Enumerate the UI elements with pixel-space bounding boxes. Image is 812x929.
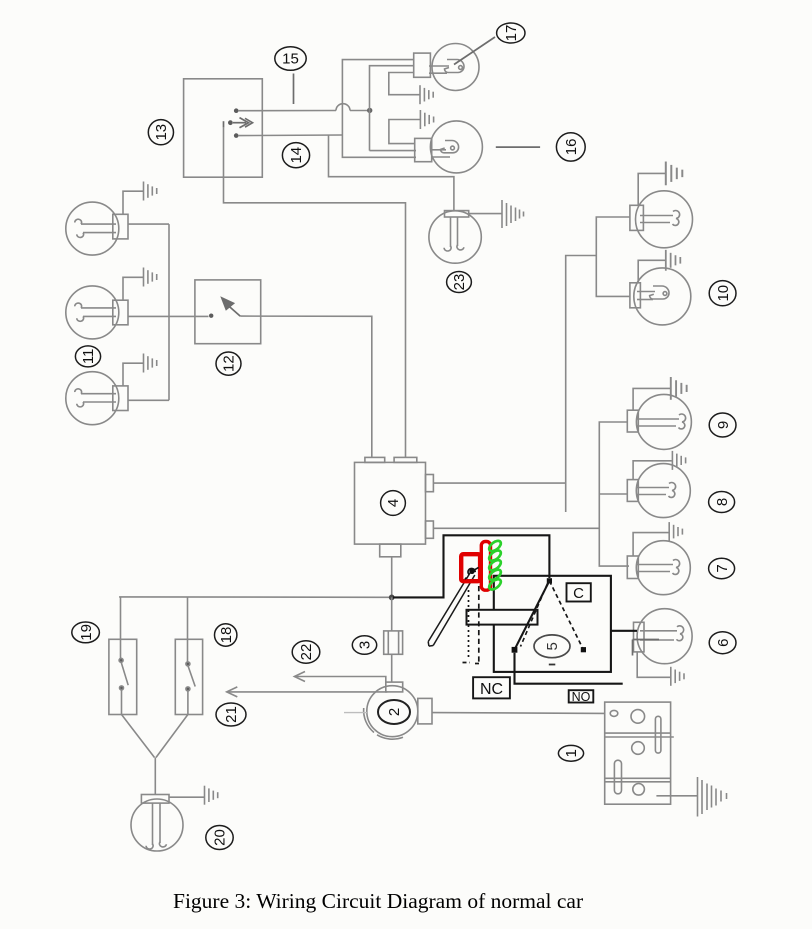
wire relay NO side to lamp 6 black (611, 630, 637, 632)
label circle 3 (352, 636, 376, 655)
label circle 7 (709, 558, 735, 578)
ground for lamp 11 middle (144, 268, 157, 287)
fuse component 3 (384, 631, 403, 654)
svg-text:4: 4 (385, 499, 402, 507)
wire stub left of horn 2 (344, 712, 367, 714)
label circle 22 (292, 641, 320, 663)
wire lamp16 to ground path (389, 120, 420, 144)
box 13 terminal dot pin c (234, 133, 239, 138)
armature lever rod (428, 573, 475, 647)
ground for box 1 large (698, 777, 727, 817)
label circle 16 (556, 133, 585, 161)
switch 12 contact dot (209, 314, 213, 318)
wire lamp10 pair feeder (596, 217, 630, 296)
label circle 5 (534, 635, 570, 658)
box 13 arrow (233, 118, 253, 128)
svg-text:5: 5 (544, 642, 561, 650)
relay armature bar red (481, 542, 490, 591)
armature pivot dot black (469, 569, 474, 574)
lamp 6 bulb (634, 609, 693, 664)
wire box4 right lower terminal to lamps 7 8 9 bus (433, 422, 629, 566)
lamp 10 upper bulb (630, 191, 693, 248)
lamp 20 bulb (131, 795, 183, 852)
label circle 6 (709, 632, 736, 654)
ground for lamp 8 (672, 451, 685, 470)
svg-text:1: 1 (563, 749, 580, 757)
svg-text:2: 2 (386, 708, 403, 716)
switch box 12 (195, 280, 261, 344)
lamp 23 bulb (429, 211, 481, 264)
wire left bus to lamp17 and lamp16 bottom prong (342, 60, 416, 158)
wire lamp11 bottom feed to bus (128, 399, 169, 401)
switch box 19 (109, 639, 137, 714)
wire lamp17 to ground path (389, 73, 420, 95)
relay coil core red (461, 554, 480, 581)
label circle 2 (378, 700, 410, 724)
wire junction B to fuse 3 (391, 597, 393, 631)
label circle 18 (215, 624, 237, 646)
switch 19 contacts and lever (119, 658, 128, 690)
label 17 pointer line (454, 37, 495, 65)
svg-text:15: 15 (282, 51, 299, 68)
node B junction dot (389, 595, 395, 601)
ground for lamp 11 bottom (144, 354, 157, 373)
svg-text:23: 23 (451, 274, 468, 291)
label circle 23 (447, 272, 472, 293)
ground for lamp 10 lower (666, 250, 681, 271)
wire lamp20 to ground (169, 796, 204, 798)
label box NC (473, 677, 510, 698)
horn 2 body (364, 682, 432, 739)
wire box4 right upper terminal to right bus up (433, 256, 596, 513)
lamp 11 top bulb (66, 202, 128, 255)
ground for lamp 16 (420, 110, 433, 129)
wire lamp7 to ground (633, 533, 669, 556)
arrow 22 line (294, 672, 385, 683)
contact NC square dot (512, 647, 518, 653)
label circle 13 (148, 120, 173, 145)
label circle 9 (709, 413, 736, 437)
wire lamp9 to ground (633, 388, 670, 410)
svg-text:18: 18 (218, 627, 235, 644)
box 13 terminal dot pin b (228, 120, 233, 125)
label circle 19 (72, 622, 100, 643)
ground for lamp 23 (502, 200, 524, 228)
slider bar rectangle (467, 610, 538, 625)
relay enclosure box 5 (494, 576, 611, 672)
label circle 10 (709, 281, 736, 306)
relay arm dashed to NO (549, 581, 583, 650)
contact C square dot (547, 578, 552, 583)
wire drop to switch 19 (120, 597, 122, 660)
caption (173, 889, 583, 914)
svg-text:NC: NC (480, 681, 503, 698)
wire Y merge from switches to lamp 20 (122, 690, 188, 795)
wire fuse 3 to horn 2 (391, 654, 393, 682)
lamp 16 headlight bulb (415, 121, 483, 173)
control box 4 (355, 457, 434, 556)
svg-text:14: 14 (288, 147, 305, 164)
svg-text:17: 17 (503, 25, 520, 42)
svg-text:6: 6 (715, 639, 732, 647)
wire box4 bottom terminal to junction B (391, 557, 393, 598)
dashed armature guide lines (463, 586, 483, 664)
wire junction B to relay C terminal black (393, 535, 549, 597)
arrow 21 line (227, 687, 388, 697)
wire feed to bulb 23 (329, 135, 454, 211)
wire drop to switch 18 (187, 597, 189, 664)
svg-text:3: 3 (357, 641, 374, 649)
svg-text:21: 21 (223, 706, 240, 723)
relay moving arm solid to NC (515, 581, 550, 650)
battery box 1 (605, 702, 674, 804)
ground for lamp 17 (420, 85, 433, 104)
box 13 lever tick (223, 121, 225, 127)
lamp 9 bulb (627, 394, 691, 449)
svg-text:22: 22 (298, 644, 315, 661)
svg-text:16: 16 (563, 139, 580, 156)
svg-text:9: 9 (715, 421, 732, 429)
coil spring green (487, 539, 502, 592)
node A junction dot (367, 108, 372, 113)
wire box 1 to ground (656, 795, 697, 797)
svg-text:12: 12 (221, 355, 238, 372)
wire lamp11 middle to ground (123, 277, 143, 300)
lamp 7 bulb (627, 541, 690, 595)
lamp 8 bulb (627, 464, 690, 518)
svg-text:10: 10 (715, 285, 732, 302)
switch box 18 (175, 639, 202, 714)
wire switch 12 output to box4 top-left terminal (240, 316, 372, 457)
svg-text:20: 20 (212, 829, 229, 846)
wire lamp11 top to ground (123, 191, 143, 214)
svg-text:C: C (573, 585, 584, 602)
wire lamp10 lower to ground (638, 260, 665, 283)
label box C (567, 583, 591, 602)
ground for lamp 20 (205, 786, 218, 805)
label circle 14 (282, 143, 309, 168)
label circle 8 (709, 492, 735, 513)
svg-text:NO: NO (572, 690, 591, 704)
switch 12 lever with arrowhead (222, 298, 240, 316)
ground for lamp 7 (669, 522, 682, 541)
svg-text:11: 11 (80, 349, 97, 365)
label circle 21 (216, 703, 246, 726)
label box NO (569, 690, 594, 704)
wire lamp8 to ground (633, 461, 672, 480)
label circle 20 (206, 826, 233, 850)
svg-text:7: 7 (714, 564, 731, 572)
ground for lamp 11 top (144, 182, 157, 201)
wire box13 pin c to bus (238, 134, 342, 137)
lamp 10 lower bulb (630, 268, 691, 325)
wire lamp 23 to ground (469, 213, 502, 215)
wire lamp6 to ground (637, 652, 670, 677)
lamp 17 headlight bulb (414, 44, 479, 91)
label circle 11 (75, 346, 100, 367)
wire main low rail to switches 18 19 (119, 596, 392, 598)
label circle 1 (558, 745, 583, 761)
svg-text:19: 19 (78, 624, 95, 641)
wire box13 pin a to junction A with hop (238, 104, 369, 111)
lamp 11 middle bulb (66, 286, 128, 339)
armature pivot arrow black (464, 567, 479, 580)
lamp 6 base dark marks (633, 640, 660, 656)
ground for lamp 10 upper (666, 162, 683, 186)
wire lamp11 top feed to bus (128, 223, 169, 225)
box 13 terminal dot pin a (234, 108, 239, 113)
svg-text:13: 13 (153, 124, 170, 141)
label circle 17 (497, 23, 525, 43)
wire junction A vertical to lamp16 top prong (370, 66, 417, 151)
wire label 16 pointer (496, 146, 540, 148)
lamp 11 bottom bulb (66, 372, 128, 425)
label 15 pointer line (293, 74, 295, 105)
relay arm dashed middle (521, 584, 548, 647)
label 5 minus mark (549, 664, 556, 666)
ground for lamp 9 (671, 377, 687, 400)
label circle 15 (275, 47, 306, 71)
flasher unit box 13 (184, 79, 263, 177)
wire lamp10 upper to ground (638, 173, 665, 205)
svg-text:8: 8 (714, 498, 731, 506)
label circle 12 (216, 352, 241, 375)
wire box13 bottom to box4 top-right terminal (224, 127, 406, 457)
contact NO square dot (581, 647, 586, 652)
wire lamp11 middle to switch 12 (128, 315, 209, 317)
switch 18 contacts and lever (186, 662, 195, 691)
wire horn 2 to box 1 (432, 712, 605, 715)
wire NC contact down and right black (515, 653, 623, 684)
ground for lamp 6 (671, 667, 684, 686)
label circle 4 (381, 491, 406, 516)
wire lamp11 bottom to ground (123, 363, 143, 386)
wire left lamp bus (168, 224, 170, 400)
